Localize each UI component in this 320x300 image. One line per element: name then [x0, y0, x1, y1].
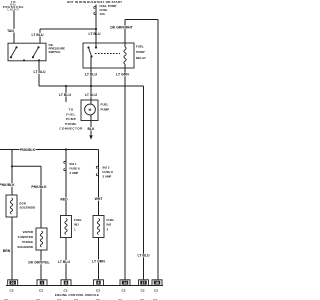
svg-text:8: 8	[65, 281, 67, 285]
svg-text:C2: C2	[141, 288, 145, 292]
svg-text:RELAY: RELAY	[136, 56, 146, 60]
svg-text:CANISTER: CANISTER	[18, 235, 34, 239]
svg-text:LT BLU: LT BLU	[32, 33, 44, 37]
svg-text:TAN: TAN	[7, 29, 14, 33]
svg-text:C3: C3	[10, 288, 14, 292]
svg-text:DK GRN/WHT: DK GRN/WHT	[110, 25, 133, 29]
svg-text:DK GRN/YEL: DK GRN/YEL	[28, 261, 49, 265]
svg-text:PUMP: PUMP	[101, 107, 110, 111]
svg-text:INJ 2: INJ 2	[103, 165, 110, 169]
svg-text:INJ: INJ	[107, 223, 112, 227]
svg-text:LIGHT: LIGHT	[7, 7, 19, 11]
svg-text:RED: RED	[60, 197, 68, 201]
svg-text:LT BLU: LT BLU	[85, 93, 97, 97]
svg-text:SOLENOID: SOLENOID	[17, 245, 34, 249]
svg-text:LT BLU: LT BLU	[85, 73, 97, 77]
svg-text:FUEL: FUEL	[101, 102, 109, 106]
svg-text:10A: 10A	[100, 12, 106, 16]
svg-text:C3: C3	[39, 288, 43, 292]
svg-text:1: 1	[41, 281, 43, 285]
svg-text:INJ: INJ	[74, 223, 79, 227]
svg-text:FUEL: FUEL	[66, 112, 76, 116]
svg-text:LT GRN: LT GRN	[92, 259, 105, 263]
svg-text:PURGE: PURGE	[22, 240, 33, 244]
svg-text:FUEL: FUEL	[136, 44, 144, 48]
svg-text:LT BLU: LT BLU	[89, 32, 101, 36]
svg-text:M: M	[89, 108, 92, 112]
svg-text:SWITCH: SWITCH	[49, 50, 61, 54]
svg-text:ENGINE CONTROL MODULE: ENGINE CONTROL MODULE	[55, 293, 99, 297]
svg-text:14: 14	[123, 281, 127, 285]
svg-text:3 AMP: 3 AMP	[70, 171, 79, 175]
svg-text:PRIME: PRIME	[65, 122, 77, 126]
svg-text:LT BLU: LT BLU	[138, 254, 150, 258]
svg-text:PUMP: PUMP	[136, 50, 145, 54]
svg-text:BRN: BRN	[3, 249, 11, 253]
svg-text:C2: C2	[96, 288, 100, 292]
svg-text:17: 17	[142, 281, 146, 285]
svg-text:LT BLU: LT BLU	[34, 70, 46, 74]
svg-text:LT BLU: LT BLU	[59, 93, 71, 97]
svg-text:FUEL: FUEL	[107, 218, 115, 222]
svg-text:VAPOR: VAPOR	[23, 230, 34, 234]
svg-text:PNK/BLK: PNK/BLK	[0, 183, 15, 187]
svg-text:FUEL: FUEL	[74, 218, 82, 222]
svg-text:PNK/BLK: PNK/BLK	[31, 185, 47, 189]
svg-text:PUMP: PUMP	[66, 117, 76, 121]
svg-text:22: 22	[11, 281, 15, 285]
svg-text:16: 16	[155, 281, 159, 285]
svg-text:C2: C2	[122, 288, 126, 292]
svg-text:PNK/BLK: PNK/BLK	[20, 148, 36, 152]
svg-text:CONNECTOR: CONNECTOR	[59, 127, 83, 131]
svg-text:FUSE 8: FUSE 8	[103, 170, 114, 174]
svg-text:TO: TO	[69, 108, 74, 112]
svg-text:BLK: BLK	[87, 127, 95, 131]
svg-text:WHT: WHT	[95, 197, 104, 201]
svg-text:LT BLU: LT BLU	[58, 260, 70, 264]
svg-text:3 AMP: 3 AMP	[103, 174, 112, 178]
svg-text:C2: C2	[64, 288, 68, 292]
svg-text:LT GRN: LT GRN	[116, 73, 129, 77]
svg-text:FUSE 6: FUSE 6	[70, 166, 81, 170]
svg-text:SOLENOID: SOLENOID	[20, 205, 37, 209]
svg-text:INJ 1: INJ 1	[70, 162, 77, 166]
svg-text:6: 6	[98, 281, 100, 285]
svg-text:C2: C2	[154, 288, 158, 292]
